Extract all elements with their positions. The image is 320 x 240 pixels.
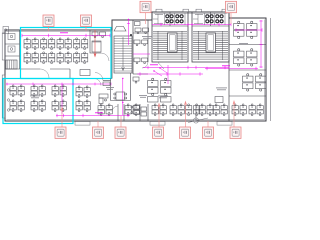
dimension horizontal y54 right of stair — [133, 53, 150, 55]
desk cluster mid-right upper — [148, 78, 172, 95]
wall: meeting suite h y100.5 — [111, 100, 131, 102]
left wc fixtures upper — [7, 34, 15, 112]
meeting suite L-desk — [99, 94, 108, 104]
room text open office left — [30, 96, 40, 99]
door arc meeting room — [101, 53, 109, 61]
reception table below top wall — [114, 27, 126, 32]
door arc meeting suite — [95, 73, 103, 81]
stair core unit 2 wc fixtures — [206, 15, 223, 23]
desks top of meeting room — [92, 32, 106, 38]
left facade stub lower — [2, 75, 5, 118]
stair core unit 2 wc counters — [194, 15, 203, 24]
stair core unit 2 elevator inner — [208, 35, 214, 50]
grid label B1 — [55, 108, 66, 139]
dimension line y30 right rooms — [236, 28, 262, 31]
grid label T1 — [43, 15, 54, 31]
dimension line y74 — [137, 72, 203, 75]
grid label B5 — [180, 102, 191, 139]
bottom facade stub 2 — [150, 122, 165, 126]
desks left of core top — [135, 28, 149, 34]
desks beside wall x140 bottom — [131, 105, 140, 115]
desk cluster row B2 — [41, 52, 55, 64]
dimension text y33 — [60, 31, 68, 34]
door arc corridor left — [40, 69, 49, 78]
desks right of long stair 1 — [134, 40, 148, 46]
small stair lower-left — [6, 60, 17, 69]
dimension text bottom — [95, 111, 103, 114]
red revision arrow x95 — [94, 30, 96, 57]
desk cluster row A3 — [57, 38, 71, 50]
stair core unit 2 shell — [192, 12, 229, 62]
desk cluster right col 1 — [234, 21, 258, 38]
dimension line y84 — [6, 83, 111, 86]
desk cluster row A4 — [74, 38, 88, 50]
door arc pantry — [94, 79, 101, 86]
stair core unit 2 flight edges — [199, 31, 223, 60]
desks bottom x141 — [141, 107, 147, 116]
room text meeting — [92, 41, 101, 44]
grid label B7 — [230, 101, 241, 138]
wall: stair hall left x112 — [111, 20, 113, 79]
desk cluster mid L3 — [52, 85, 66, 97]
dimension vertical x62 — [61, 84, 63, 114]
meeting suite sideboard — [103, 82, 110, 86]
desk cluster right col 2 — [234, 49, 258, 66]
wall: right of core x229 — [228, 12, 230, 121]
stair core unit 1 wc stalls — [153, 13, 185, 25]
building outer wall — [5, 12, 266, 121]
desk single mid-right — [215, 97, 223, 103]
bottom facade stub 3 — [217, 122, 232, 126]
stair core unit 1 wc fixtures — [166, 15, 183, 23]
wall: y74 rooms right of stair — [133, 73, 148, 75]
highlight rect B (cyan) — [3, 79, 73, 124]
highlight rect A (cyan) — [21, 28, 112, 79]
dimension text core lower — [150, 63, 158, 66]
desk cluster mid-right third row — [148, 97, 172, 102]
desk cluster row A2 — [41, 38, 55, 50]
desk cluster mid M3 — [52, 100, 66, 112]
dimension line y68.5 right — [205, 67, 258, 70]
desk cluster bottom row 3 — [152, 104, 166, 116]
wall: right rooms partition y70 — [229, 69, 266, 71]
grid label B6 — [203, 121, 214, 138]
meeting suite table — [114, 92, 127, 100]
wall: left rooms column — [5, 30, 20, 69]
door arc corridor core — [142, 62, 148, 68]
stair core unit 1 wc wall — [152, 12, 188, 26]
grid label B4 — [153, 104, 164, 139]
desk cluster bottom row 7 — [249, 104, 263, 116]
desk cluster mid x76 lower — [76, 100, 90, 112]
dimension line y67.5 — [143, 66, 229, 69]
wall: right rooms partition y96 — [229, 95, 266, 97]
grid label T3 — [140, 1, 151, 24]
desk small near stair top — [130, 22, 140, 37]
stair core unit 1 shell — [152, 12, 188, 62]
corner kiosk top-left — [3, 27, 9, 34]
desk cluster bottom row 1 — [98, 104, 112, 116]
desk cluster right col 3 — [243, 74, 267, 91]
bottom facade stub 1 — [75, 122, 90, 126]
desk cluster bottom row 4b — [186, 104, 200, 116]
wall: stair hall right x133 — [132, 20, 134, 74]
dimension text right — [222, 64, 230, 67]
stair core unit 2 wc stalls — [193, 13, 225, 25]
door arc bottom corridor — [112, 106, 118, 112]
desk cluster row B3 — [57, 52, 71, 64]
dimension vertical x261 — [259, 20, 262, 68]
desk cluster bottom row 6 — [232, 104, 246, 116]
desk cluster bottom row 4 — [170, 104, 184, 116]
stair core unit 1 flight edges — [158, 31, 182, 60]
desk cluster bottom row 5 — [199, 104, 213, 116]
stair core unit 2 wc wall — [192, 12, 229, 26]
wall: corridor y69 left wing — [5, 68, 70, 70]
desk cluster mid x76 upper — [76, 86, 90, 98]
dimension line y24.5 core — [152, 23, 231, 26]
desk cluster mid M1 — [10, 100, 24, 112]
long stair center rail and arrow — [122, 37, 125, 71]
stair core unit 1 elevator inner — [169, 35, 175, 50]
wall: meeting suite v x110.5 — [110, 79, 112, 101]
dimension vertical x168 — [167, 65, 169, 84]
stair core unit 1 treads — [153, 32, 187, 59]
desk cluster row A1 — [24, 38, 38, 50]
room text corridor core — [142, 36, 152, 39]
grid label T4 — [226, 1, 237, 24]
dimension line y35.5 — [22, 34, 110, 37]
right property line — [270, 18, 272, 121]
stair core unit 1 elevator — [168, 33, 178, 52]
desk cluster row B1 — [24, 52, 38, 64]
wall: y78.5 pantry wall — [70, 78, 112, 80]
desk cluster bottom row 8 — [213, 104, 227, 116]
stair core unit 2 elevator — [206, 33, 216, 52]
wall: meeting room left of stair — [90, 30, 101, 53]
desk cluster mid L1 — [10, 85, 24, 97]
wall: right rooms partition y44.5 — [229, 44, 266, 46]
room text mid-right — [158, 96, 168, 99]
grid label B2 — [93, 121, 104, 138]
wall: vertical x70 — [69, 69, 71, 79]
pantry table — [80, 70, 90, 76]
dimension line y115.5 — [56, 114, 130, 117]
stair core unit 2 treads — [193, 32, 228, 59]
desk cluster row B4 — [74, 52, 88, 64]
left facade stub upper — [2, 33, 5, 60]
room text right col — [239, 42, 248, 45]
dimension vertical x128.5 upper — [127, 19, 130, 45]
room text right of suite — [139, 95, 147, 98]
room text meeting suite — [106, 87, 114, 90]
dimension vertical x122.8 — [122, 78, 124, 115]
wall: meeting suite h y80.5 — [103, 80, 111, 82]
outer wall inner line — [7, 13, 265, 119]
long stair outline — [114, 36, 132, 73]
wall: room divider y33 right of stair — [133, 32, 148, 34]
stair core unit 1 wc counters — [154, 15, 163, 24]
grid label B3 — [115, 116, 126, 138]
room text open office right — [216, 88, 227, 91]
wall: corridor x148 left of core — [147, 20, 149, 121]
grid label T2 — [81, 15, 92, 31]
wall: meeting suite v x130.5 — [130, 73, 132, 101]
wall: bottom rooms door jambs — [118, 104, 196, 121]
roof shaft stubs above core — [156, 9, 228, 12]
desk cluster mid L2 — [31, 85, 45, 97]
desk small x133 — [133, 77, 139, 83]
desk cluster bottom row 2 — [125, 104, 139, 116]
meeting table left of stair — [92, 41, 101, 52]
dimension diagonal leaders mid — [154, 68, 167, 76]
desks right of long stair 2 — [134, 58, 148, 64]
door swing near core exit — [157, 62, 164, 70]
section marker — [188, 118, 208, 123]
long stair treads — [114, 39, 132, 72]
desk cluster mid M2 — [31, 100, 45, 112]
